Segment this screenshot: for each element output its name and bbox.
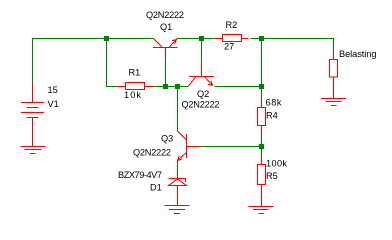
wire top rail right xyxy=(251,39,334,52)
wire R4 bottom to node xyxy=(261,135,263,145)
svg-text:Q1: Q1 xyxy=(160,22,172,32)
resistor R5 xyxy=(261,154,263,165)
svg-text:R4: R4 xyxy=(266,111,278,121)
node junction R4 R5 xyxy=(259,144,264,149)
ground Belasting xyxy=(321,99,346,106)
wire Q2 emitter row xyxy=(215,86,260,88)
wire top rail left xyxy=(33,39,154,83)
node junction Q1 base xyxy=(163,84,168,89)
svg-text:Q2N2222: Q2N2222 xyxy=(182,100,220,110)
svg-text:Q3: Q3 xyxy=(161,134,173,144)
wire Q3 emitter to D1 xyxy=(177,161,179,171)
ground D1 xyxy=(165,206,190,214)
wire drop to R1 row xyxy=(107,39,117,87)
svg-text:100k: 100k xyxy=(266,159,287,169)
node junction top-left xyxy=(104,36,109,41)
zener diode D1 xyxy=(169,170,187,206)
wire R5 top stub xyxy=(261,149,263,154)
resistor Belasting xyxy=(333,51,335,60)
wire Q3 collector up xyxy=(177,89,179,132)
transistor Q2 xyxy=(189,64,215,87)
ground battery xyxy=(21,147,46,154)
svg-text:R5: R5 xyxy=(266,171,278,181)
node junction Q3 collector xyxy=(175,84,180,89)
wire R2 output drop xyxy=(261,39,263,87)
svg-text:15: 15 xyxy=(48,85,58,95)
svg-text:Q2N2222: Q2N2222 xyxy=(133,148,171,158)
wire top rail middle xyxy=(177,38,215,40)
resistor R1 xyxy=(117,86,126,88)
wire Q3 base row xyxy=(201,146,260,148)
resistor R2 xyxy=(214,38,223,40)
svg-text:27: 27 xyxy=(224,42,234,52)
svg-text:Belasting: Belasting xyxy=(339,49,377,59)
svg-text:10k: 10k xyxy=(124,90,141,100)
wire Q2 base drop xyxy=(201,39,203,64)
svg-text:R1: R1 xyxy=(129,68,141,78)
ground R5 xyxy=(249,207,274,214)
svg-text:Q2: Q2 xyxy=(197,89,209,99)
transistor Q3 xyxy=(178,132,201,161)
node junction Q2 base xyxy=(199,36,204,41)
svg-text:BZX79-4V7: BZX79-4V7 xyxy=(118,170,162,180)
svg-text:R2: R2 xyxy=(226,20,238,30)
svg-text:D1: D1 xyxy=(150,183,162,193)
node junction emitter row xyxy=(259,84,264,89)
svg-text:V1: V1 xyxy=(48,99,59,109)
wire R4 top stub xyxy=(261,89,263,99)
battery V1 xyxy=(21,82,44,147)
wire R1 to Q2 row xyxy=(154,86,189,88)
wire Q1 base down xyxy=(165,60,167,85)
svg-text:Q2N2222: Q2N2222 xyxy=(146,10,184,20)
transistor Q1 xyxy=(153,39,178,60)
svg-text:68k: 68k xyxy=(266,98,282,108)
resistor R4 xyxy=(261,99,263,108)
node junction R2 right xyxy=(259,36,264,41)
